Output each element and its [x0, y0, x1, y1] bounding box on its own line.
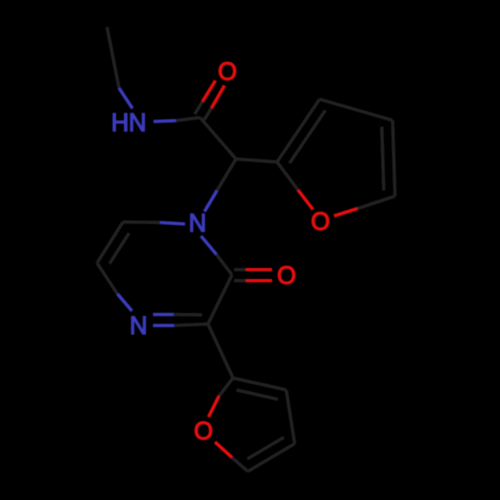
bond N1-C2 nitrogen half	[201, 236, 217, 255]
bond furanB O-C2 oxygen half	[209, 396, 220, 417]
bond furanB O-C5 oxygen half	[215, 442, 232, 458]
bond C3-C2	[208, 275, 232, 324]
bond N1-C2 carbon half	[217, 255, 233, 275]
bond C6=C5 inner	[110, 233, 130, 264]
bond CH3-N(H) nitrogen half	[119, 88, 133, 109]
bond CH-N1 nitrogen half	[205, 191, 218, 212]
bond C5-N4 nitrogen half	[118, 294, 133, 311]
bond C=O amide line1 carbon half	[195, 102, 203, 115]
bond furanA C3-C4	[320, 99, 393, 120]
svg-text:O: O	[311, 209, 330, 236]
bond N4=C3 main nitrogen half	[153, 324, 174, 327]
bond N(H)-C(amide) nitrogen half	[154, 119, 177, 123]
bond furanA C5-O carbon half	[358, 196, 396, 208]
bond C3-furanB C2	[208, 324, 233, 378]
bond CH3-N(H) carbon half	[107, 27, 119, 88]
bond furanA O-C2 carbon half	[277, 162, 298, 190]
bond C2=O2 line1 carbon half	[234, 268, 246, 271]
bond furanB C2=C3 inner	[237, 390, 278, 399]
bond C=O amide line1 oxygen half	[203, 81, 216, 102]
bond furanA C2=C3 inner	[290, 110, 326, 163]
bond C5-N4 carbon half	[97, 263, 118, 294]
bond furanA C4=C5 inner	[382, 127, 384, 191]
bond furanA C2=C3 main	[277, 99, 320, 162]
bond N1-C6 carbon half	[123, 220, 160, 224]
bond furanB O-C5 carbon half	[232, 458, 248, 472]
bond furanB C2=C3 main	[233, 378, 286, 390]
bond CH-N1 carbon half	[217, 159, 236, 191]
bond CH-furanA C2	[236, 159, 277, 162]
bond furanA C4=C5 main	[393, 120, 395, 196]
bond C2=O2 line2 oxygen half	[246, 279, 272, 282]
bond C2=O2 line1 oxygen half	[246, 268, 272, 271]
bond furanB C3-C4	[286, 390, 295, 444]
bond furanB O-C2 carbon half	[219, 378, 233, 396]
bond furanB C4=C5 inner	[247, 437, 284, 459]
svg-text:N: N	[130, 313, 148, 340]
bond C2=O2 line2 carbon half	[234, 279, 246, 282]
svg-text:N: N	[189, 211, 207, 238]
bond C(amide)-CH	[200, 118, 236, 160]
bond C6=C5 main	[97, 222, 123, 263]
bond N4=C3 inner carbon half	[174, 313, 203, 317]
svg-text:O: O	[218, 59, 237, 86]
svg-text:O: O	[194, 419, 213, 446]
bond C=O amide line2 oxygen half	[212, 86, 225, 109]
bond N(H)-C(amide) carbon half	[176, 118, 200, 121]
bond N1-C6 nitrogen half	[160, 223, 185, 225]
svg-text:O: O	[277, 263, 296, 290]
bond N4=C3 inner nitrogen half	[153, 313, 174, 316]
bond C=O amide line2 carbon half	[204, 108, 212, 121]
svg-text:N: N	[129, 110, 147, 137]
svg-text:H: H	[111, 110, 129, 137]
bond furanA C5-O oxygen half	[334, 209, 358, 217]
bond furanA O-C2 oxygen half	[298, 190, 313, 210]
bond furanB C4=C5 main	[248, 444, 295, 472]
bond N4=C3 main carbon half	[174, 324, 208, 326]
